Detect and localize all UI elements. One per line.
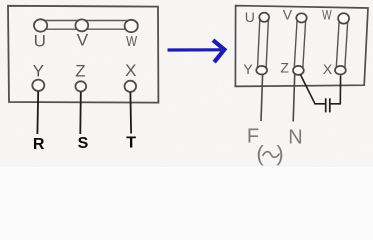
svg-text:X: X	[323, 61, 333, 77]
svg-text:R: R	[33, 136, 45, 153]
terminal X bottom (circle)	[335, 66, 346, 75]
terminal V top (circle)	[296, 13, 306, 22]
terminal Y (circle)	[32, 80, 44, 91]
svg-text:V: V	[77, 31, 89, 50]
svg-text:Y: Y	[243, 61, 253, 77]
svg-text:W: W	[126, 33, 138, 50]
AC source symbol (~)	[256, 141, 283, 166]
svg-text:N: N	[288, 127, 302, 149]
wire X to T	[129, 92, 132, 134]
wire Y to F	[261, 75, 263, 122]
link W-X (stadium)	[336, 18, 348, 70]
wire Z to N	[293, 74, 295, 121]
svg-text:X: X	[125, 61, 136, 80]
terminal box (left, delta-start view)	[8, 6, 158, 103]
svg-text:T: T	[126, 135, 136, 152]
terminal V (circle)	[75, 19, 88, 31]
terminal Z (circle)	[75, 81, 86, 91]
wire Z to capacitor (diagonal)	[300, 75, 325, 104]
terminal W top (circle)	[338, 13, 349, 23]
svg-text:Z: Z	[280, 60, 289, 76]
terminal Z bottom (circle)	[293, 66, 304, 75]
svg-text:Y: Y	[33, 61, 44, 80]
link U-Y (stadium)	[257, 17, 268, 70]
wire Z to S	[79, 92, 82, 134]
AC tilde wave	[263, 152, 280, 158]
capacitor C (plates)	[326, 98, 330, 112]
svg-text:Z: Z	[75, 61, 85, 80]
svg-text:U: U	[34, 32, 46, 51]
terminal Y bottom (circle)	[256, 66, 267, 75]
shorting bar linking U-V-W	[34, 21, 138, 30]
paper background	[0, 0, 373, 167]
svg-text:V: V	[283, 7, 293, 23]
terminal box (right, single-phase view)	[235, 6, 368, 87]
terminal X (circle)	[125, 81, 137, 92]
wire Y to R	[36, 91, 39, 134]
wire capacitor to X	[331, 76, 341, 104]
blue conversion arrow	[168, 42, 225, 61]
terminal U top (circle)	[259, 13, 269, 22]
svg-text:U: U	[245, 9, 255, 25]
svg-text:S: S	[78, 135, 89, 152]
link V-Z (stadium)	[294, 18, 306, 71]
svg-text:W: W	[322, 7, 332, 23]
terminal U (circle)	[34, 19, 47, 31]
svg-text:): )	[276, 141, 283, 166]
terminal W (circle)	[125, 20, 138, 32]
